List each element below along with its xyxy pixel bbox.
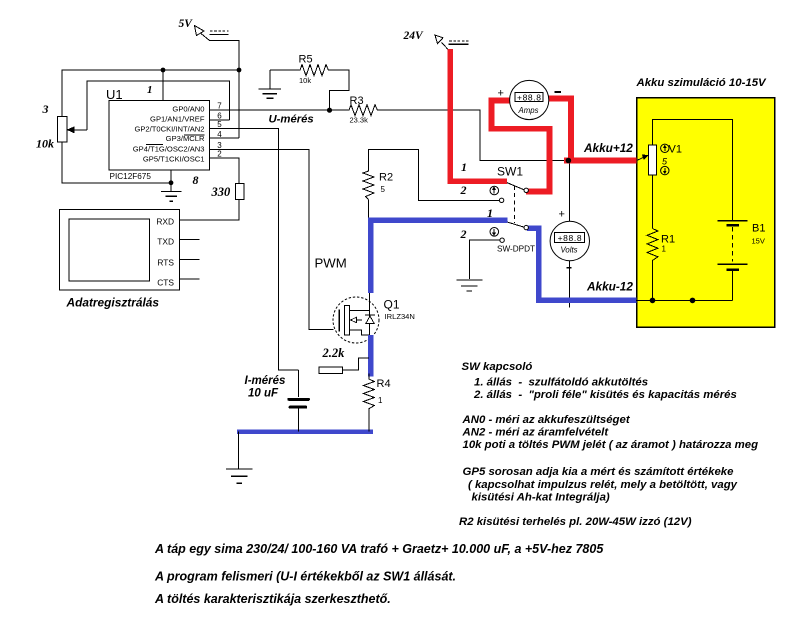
svg-text:10k: 10k	[299, 76, 311, 85]
svg-text:GP4/T1G/OSC2/AN3: GP4/T1G/OSC2/AN3	[133, 144, 205, 153]
svg-text:GP0/AN0: GP0/AN0	[172, 105, 204, 114]
svg-text:8: 8	[193, 173, 199, 187]
svg-text:( kapcsolhat impulzus relét, m: ( kapcsolhat impulzus relét, mely a betö…	[468, 479, 738, 491]
svg-text:1: 1	[461, 160, 467, 174]
svg-text:GP3/MCLR: GP3/MCLR	[166, 134, 205, 143]
svg-text:24V: 24V	[403, 30, 425, 42]
svg-text:A töltés karakterisztikája sze: A töltés karakterisztikája szerkeszthető…	[154, 592, 391, 606]
svg-text:2: 2	[217, 150, 222, 159]
blade top pole	[506, 182, 525, 190]
svg-text:2: 2	[460, 183, 467, 197]
svg-text:A program felismeri (U-I érték: A program felismeri (U-I értékekből az S…	[154, 569, 456, 583]
svg-text:GP1/AN1/VREF: GP1/AN1/VREF	[150, 115, 205, 124]
resistor R4 lead top	[368, 374, 370, 380]
gang dashed link	[513, 186, 515, 223]
svg-text:4: 4	[217, 130, 222, 139]
svg-text:Amps: Amps	[518, 106, 539, 115]
wire pot wiper to pin6	[87, 81, 230, 130]
svg-text:23.3k: 23.3k	[350, 116, 369, 125]
wire R5 left ground stem	[269, 70, 271, 89]
ground SW throw2	[456, 279, 482, 281]
wire TXD stub	[180, 239, 200, 241]
svg-text:10k poti a töltés PWM jelét (: 10k poti a töltés PWM jelét ( az áramot …	[463, 439, 759, 451]
wire voltmeter top stem	[568, 161, 570, 222]
wire blue R2 node to SW1 and down to Q1	[371, 220, 505, 290]
symbol circle-up top pole	[490, 186, 499, 195]
blade bottom pole	[506, 222, 525, 228]
wire pin5 stub to AN2 drop	[210, 129, 299, 370]
voltmeter	[550, 209, 589, 268]
wire red SW common to ammeter plus	[492, 101, 550, 192]
wire pin7 U-meres net	[210, 109, 350, 111]
svg-text:2.2k: 2.2k	[322, 346, 346, 360]
svg-text:Akku-12: Akku-12	[586, 280, 633, 294]
svg-text:330: 330	[211, 185, 232, 199]
resistor R5 zigzag	[270, 65, 330, 76]
svg-text:RXD: RXD	[156, 216, 174, 226]
wire throw2 top pole	[419, 199, 500, 201]
resistor R3 zigzag	[349, 105, 379, 116]
svg-text:CTS: CTS	[157, 277, 174, 287]
svg-text:+88.8: +88.8	[558, 233, 582, 243]
resistor R4 zigzag	[363, 379, 374, 411]
svg-text:SW-DPDT: SW-DPDT	[497, 245, 535, 254]
svg-text:3: 3	[42, 102, 49, 116]
wire top loop in akku box	[653, 120, 733, 221]
svg-text:Akku+12: Akku+12	[583, 141, 633, 155]
data logger screen	[69, 219, 150, 281]
wire blue ground bus bottom	[239, 430, 371, 434]
transistor Q1 IRLZ34N	[333, 291, 415, 343]
svg-text:+88.8: +88.8	[517, 92, 541, 102]
wire R5 right lead down to U-meres	[330, 70, 350, 110]
wire pin2 stub to 330	[210, 158, 240, 184]
symbol circle-down bottom pole	[490, 228, 499, 237]
svg-text:1: 1	[378, 396, 383, 405]
battery simulation yellow box	[637, 98, 775, 328]
Q1 gate bar	[338, 310, 340, 332]
contact circle throw2 top	[499, 198, 503, 202]
contact circle common bottom	[524, 225, 528, 229]
wire voltmeter stem tick below blue	[568, 304, 570, 308]
svg-text:GP5 sorosan adja kia a mért és: GP5 sorosan adja kia a mért és számított…	[463, 466, 735, 478]
svg-text:SW1: SW1	[497, 165, 523, 179]
svg-text:GP2/T0CKI/INT/AN2: GP2/T0CKI/INT/AN2	[134, 125, 204, 134]
contact circle throw2 bottom	[500, 238, 504, 242]
svg-text:A táp egy sima 230/24/ 100-160: A táp egy sima 230/24/ 100-160 VA trafó …	[154, 542, 604, 556]
svg-text:AN2 - méri az áramfelvételt: AN2 - méri az áramfelvételt	[462, 427, 610, 439]
wire R2 top to SW throw2	[368, 150, 499, 201]
svg-text:R2 kisütési terhelés pl. 20W-4: R2 kisütési terhelés pl. 20W-45W izzó (1…	[459, 516, 692, 528]
contact circle common top	[524, 188, 528, 192]
svg-text:6: 6	[217, 111, 222, 120]
wire RV1 wiper arrow black under red	[568, 157, 644, 161]
bottom components	[226, 346, 391, 483]
svg-text:U-mérés: U-mérés	[269, 113, 314, 125]
wire R3 right to SW node	[379, 110, 568, 160]
battery box internals	[636, 120, 765, 304]
capacitor 10uF stem top	[297, 370, 299, 397]
pot wiper arrow	[71, 129, 87, 131]
junction dot at 171,182.8	[169, 180, 174, 185]
switch SW1 DPDT	[419, 160, 535, 291]
Q1 drain connector	[349, 310, 369, 312]
wire pin1 stub	[162, 70, 164, 101]
Q1 body circle	[333, 297, 379, 343]
overline MCLR	[184, 134, 205, 136]
svg-text:GP5/T1CKI/OSC1: GP5/T1CKI/OSC1	[143, 154, 205, 163]
wire red ammeter minus down to node	[551, 99, 572, 161]
svg-text:10k: 10k	[36, 137, 54, 151]
svg-text:RTS: RTS	[157, 257, 174, 267]
svg-text:SW kapcsoló: SW kapcsoló	[462, 361, 533, 373]
wire blue SW common bottom to Akku-12	[530, 228, 634, 300]
wire red Akku+12	[567, 157, 634, 163]
svg-text:1: 1	[147, 84, 153, 96]
resistor 2.2k body	[319, 367, 342, 373]
wire pin6 stub	[210, 119, 230, 121]
wire RV1 bottom to R1	[652, 175, 654, 228]
junction dot R1 bottom	[650, 298, 656, 304]
svg-text:Volts: Volts	[560, 245, 577, 254]
svg-text:kisütési Ah-kat Integrálja): kisütési Ah-kat Integrálja)	[472, 492, 610, 504]
ground U1	[161, 191, 182, 193]
svg-text:I-mérés: I-mérés	[245, 375, 286, 387]
resistor 330 body	[236, 184, 244, 200]
svg-text:3: 3	[217, 141, 222, 150]
wire 5V drop to rail and pin4	[210, 41, 240, 139]
wire pin3 stub to gate drop	[210, 149, 334, 329]
annotation texts	[154, 361, 758, 606]
capacitor stem bottom	[297, 408, 299, 432]
svg-text:R2: R2	[379, 172, 393, 184]
wire throw2 bottom pole	[470, 240, 500, 279]
wire blue Q1 source to R4	[368, 338, 374, 374]
ground bottom left	[226, 468, 253, 470]
svg-text:R5: R5	[299, 54, 313, 66]
RV1 circle-down symbol	[661, 166, 669, 174]
svg-text:Q1: Q1	[384, 298, 400, 312]
potentiometer 10k left	[58, 117, 68, 143]
wire 5V rail y=70	[62, 70, 239, 117]
svg-text:V1: V1	[669, 144, 682, 156]
svg-text:7: 7	[217, 102, 222, 111]
svg-text:B1: B1	[752, 223, 765, 235]
svg-text:2: 2	[460, 227, 467, 241]
svg-text:PWM: PWM	[315, 256, 347, 271]
Q1 substrate arrow	[353, 319, 362, 321]
svg-text:5: 5	[381, 185, 386, 194]
svg-text:U1: U1	[106, 87, 123, 102]
svg-text:IRLZ34N: IRLZ34N	[385, 312, 415, 321]
svg-text:2. állás - "proli féle" kisü: 2. állás - "proli féle" kisütés és kapac…	[473, 389, 737, 401]
wire R4 bottom	[368, 411, 370, 431]
potentiometer RV1	[649, 145, 657, 175]
overline T1G	[146, 143, 163, 145]
capacitor plate 1	[289, 398, 308, 401]
wire voltmeter bottom stem	[568, 261, 570, 308]
svg-text:5: 5	[217, 120, 222, 129]
svg-text:15V: 15V	[752, 237, 765, 246]
svg-text:R4: R4	[377, 378, 391, 390]
wire U1 pin8 ground stem	[170, 170, 172, 192]
wire 330 bottom to RXD	[180, 200, 240, 220]
Q1 source connector	[349, 330, 369, 335]
svg-text:Akku szimuláció 10-15V: Akku szimuláció 10-15V	[636, 77, 768, 89]
svg-text:+: +	[559, 209, 565, 221]
svg-text:PIC12F675: PIC12F675	[110, 172, 152, 181]
resistor R2 zigzag	[363, 169, 374, 199]
battery B1	[717, 220, 747, 222]
resistor R1 zigzag	[647, 229, 658, 263]
junction dot U-meres	[327, 108, 332, 113]
svg-text:R3: R3	[350, 95, 364, 107]
Q1 channel bar	[344, 306, 349, 335]
junction dot mid bus	[690, 298, 696, 304]
svg-text:Adatregisztrálás: Adatregisztrálás	[66, 296, 160, 310]
wire ground stem bottom left	[237, 432, 239, 469]
wire RTS stub	[180, 259, 200, 261]
wire R1 bottom	[651, 263, 653, 301]
junction dot at 163,70	[161, 68, 166, 73]
ground R5	[259, 88, 281, 90]
svg-text:1: 1	[662, 245, 667, 254]
Q1 body diode	[366, 316, 374, 324]
junction dot Akku+12 node	[566, 158, 572, 164]
ammeter	[498, 80, 562, 119]
wire pot bottom to ground rail	[62, 142, 171, 183]
data logger box	[60, 210, 180, 291]
svg-text:5V: 5V	[179, 18, 194, 30]
svg-text:1. állás - szulfátoldó akkut: 1. állás - szulfátoldó akkutöltés	[474, 376, 648, 388]
wire akku bottom bus	[636, 299, 733, 301]
IC U1 PIC12F675 box	[109, 101, 210, 171]
capacitor plate 2	[290, 406, 306, 409]
RV1 circle-up symbol	[661, 144, 669, 152]
svg-text:+: +	[498, 88, 504, 100]
wire pin4 stub	[210, 137, 240, 139]
power 24V symbol	[403, 30, 469, 52]
junction dot at 239,70	[237, 68, 242, 73]
wire R2 bottom lead	[367, 199, 369, 220]
svg-text:TXD: TXD	[157, 237, 174, 247]
svg-text:10 uF: 10 uF	[248, 388, 279, 400]
svg-text:AN0 - méri az akkufeszültséget: AN0 - méri az akkufeszültséget	[462, 414, 631, 426]
wire CTS stub	[180, 278, 200, 280]
wire 2.2k right to source node	[343, 358, 369, 370]
wire red 24V feed to SW1	[450, 52, 504, 182]
Q1 drain vertical	[368, 291, 370, 338]
